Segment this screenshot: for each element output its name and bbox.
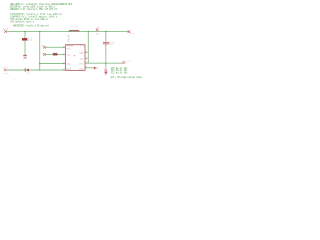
svg-text:5V0: 5V0 [3, 27, 9, 30]
svg-text:5V: 5V [130, 32, 135, 35]
svg-text:SW: SW [126, 59, 131, 62]
note right block [111, 67, 129, 75]
svg-text:47u: 47u [110, 43, 114, 46]
svg-text:V+: V+ [80, 44, 85, 47]
wire right row [85, 62, 123, 64]
svg-text:2: 2 [63, 52, 64, 55]
diode D1 [25, 68, 31, 74]
wire vertical at node A [24, 32, 26, 39]
svg-text:gnd | IM origin access plane: gnd | IM origin access plane [111, 76, 143, 79]
ground symbol G2 [104, 69, 107, 75]
inductor L1 [67, 25, 79, 42]
wire short NC pin [85, 67, 94, 69]
capacitor C1 [103, 41, 115, 47]
junction node G [105, 62, 107, 64]
no-connect X2 [43, 53, 46, 56]
pin numbers [63, 45, 87, 71]
connector P2 no-connect X [128, 30, 135, 35]
svg-text:#DETECTED: levels 3.3V max onl: #DETECTED: levels 3.3V max onl [13, 24, 50, 27]
no-connect X1 [42, 44, 46, 49]
connector P1 no-connect X [3, 27, 9, 33]
wire to pin RST [45, 46, 66, 48]
note text block 2 [10, 13, 63, 24]
junction node B [39, 31, 41, 33]
svg-text:JP1-default open.s: JP1-default open.s [10, 20, 35, 23]
wire vertical at node D [105, 32, 107, 42]
svg-text:VREGOUT-3.3V internal, PSU off: VREGOUT-3.3V internal, PSU off EXT.VI [10, 8, 58, 11]
ground symbol G1 [23, 55, 27, 59]
resistor R1 [22, 37, 33, 42]
junction node F [39, 69, 41, 71]
wire bottom row [7, 69, 66, 71]
connector P3 no-connect X [4, 65, 8, 75]
junction node D [105, 31, 107, 33]
svg-text:L1: L1 [74, 25, 79, 28]
svg-text:10k: 10k [28, 39, 33, 42]
svg-text:7: 7 [86, 56, 87, 59]
junction node E [39, 63, 41, 65]
wire +5V rail [7, 31, 129, 33]
ERC marker X on rail [96, 26, 101, 36]
wire vertical at node C [87, 32, 89, 64]
junction node A [24, 31, 26, 33]
junction node C [88, 31, 90, 33]
connector P4 no-connect X [123, 59, 131, 63]
no-connect arrow [94, 67, 97, 70]
wire below C1 [105, 46, 107, 69]
wire pin3 from node E [40, 63, 66, 65]
svg-text:IC5 dc-4c 10k: IC5 dc-4c 10k [111, 71, 129, 74]
svg-text:10uH: 10uH [67, 35, 70, 43]
wire to pin via R2 [45, 53, 66, 55]
pin stubs right [85, 53, 87, 68]
wire vertical at node B [39, 32, 41, 70]
pin stubs left [63, 47, 65, 70]
IC U1 [65, 44, 85, 70]
resistor R2 [53, 51, 58, 55]
wire below R1 [24, 40, 26, 55]
note text block 1 [10, 3, 73, 11]
svg-text:GND: GND [67, 67, 72, 70]
